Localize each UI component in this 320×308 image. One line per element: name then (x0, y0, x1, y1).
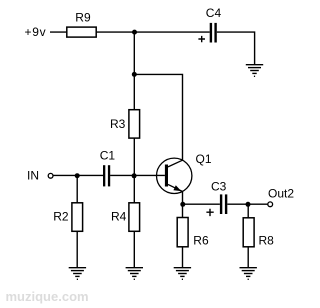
svg-text:R9: R9 (75, 11, 91, 25)
svg-text:R8: R8 (259, 234, 275, 248)
svg-text:muzique.com: muzique.com (6, 289, 89, 304)
svg-text:Q1: Q1 (196, 152, 212, 166)
svg-text:R3: R3 (110, 117, 126, 131)
svg-text:IN: IN (27, 169, 39, 183)
svg-text:C1: C1 (100, 149, 116, 163)
svg-text:R6: R6 (193, 234, 209, 248)
svg-text:R2: R2 (53, 209, 69, 223)
svg-text:Out2: Out2 (268, 186, 294, 200)
svg-text:+9v: +9v (25, 25, 47, 39)
svg-text:C3: C3 (211, 180, 227, 194)
svg-text:R4: R4 (111, 209, 127, 223)
svg-text:C4: C4 (206, 6, 222, 20)
